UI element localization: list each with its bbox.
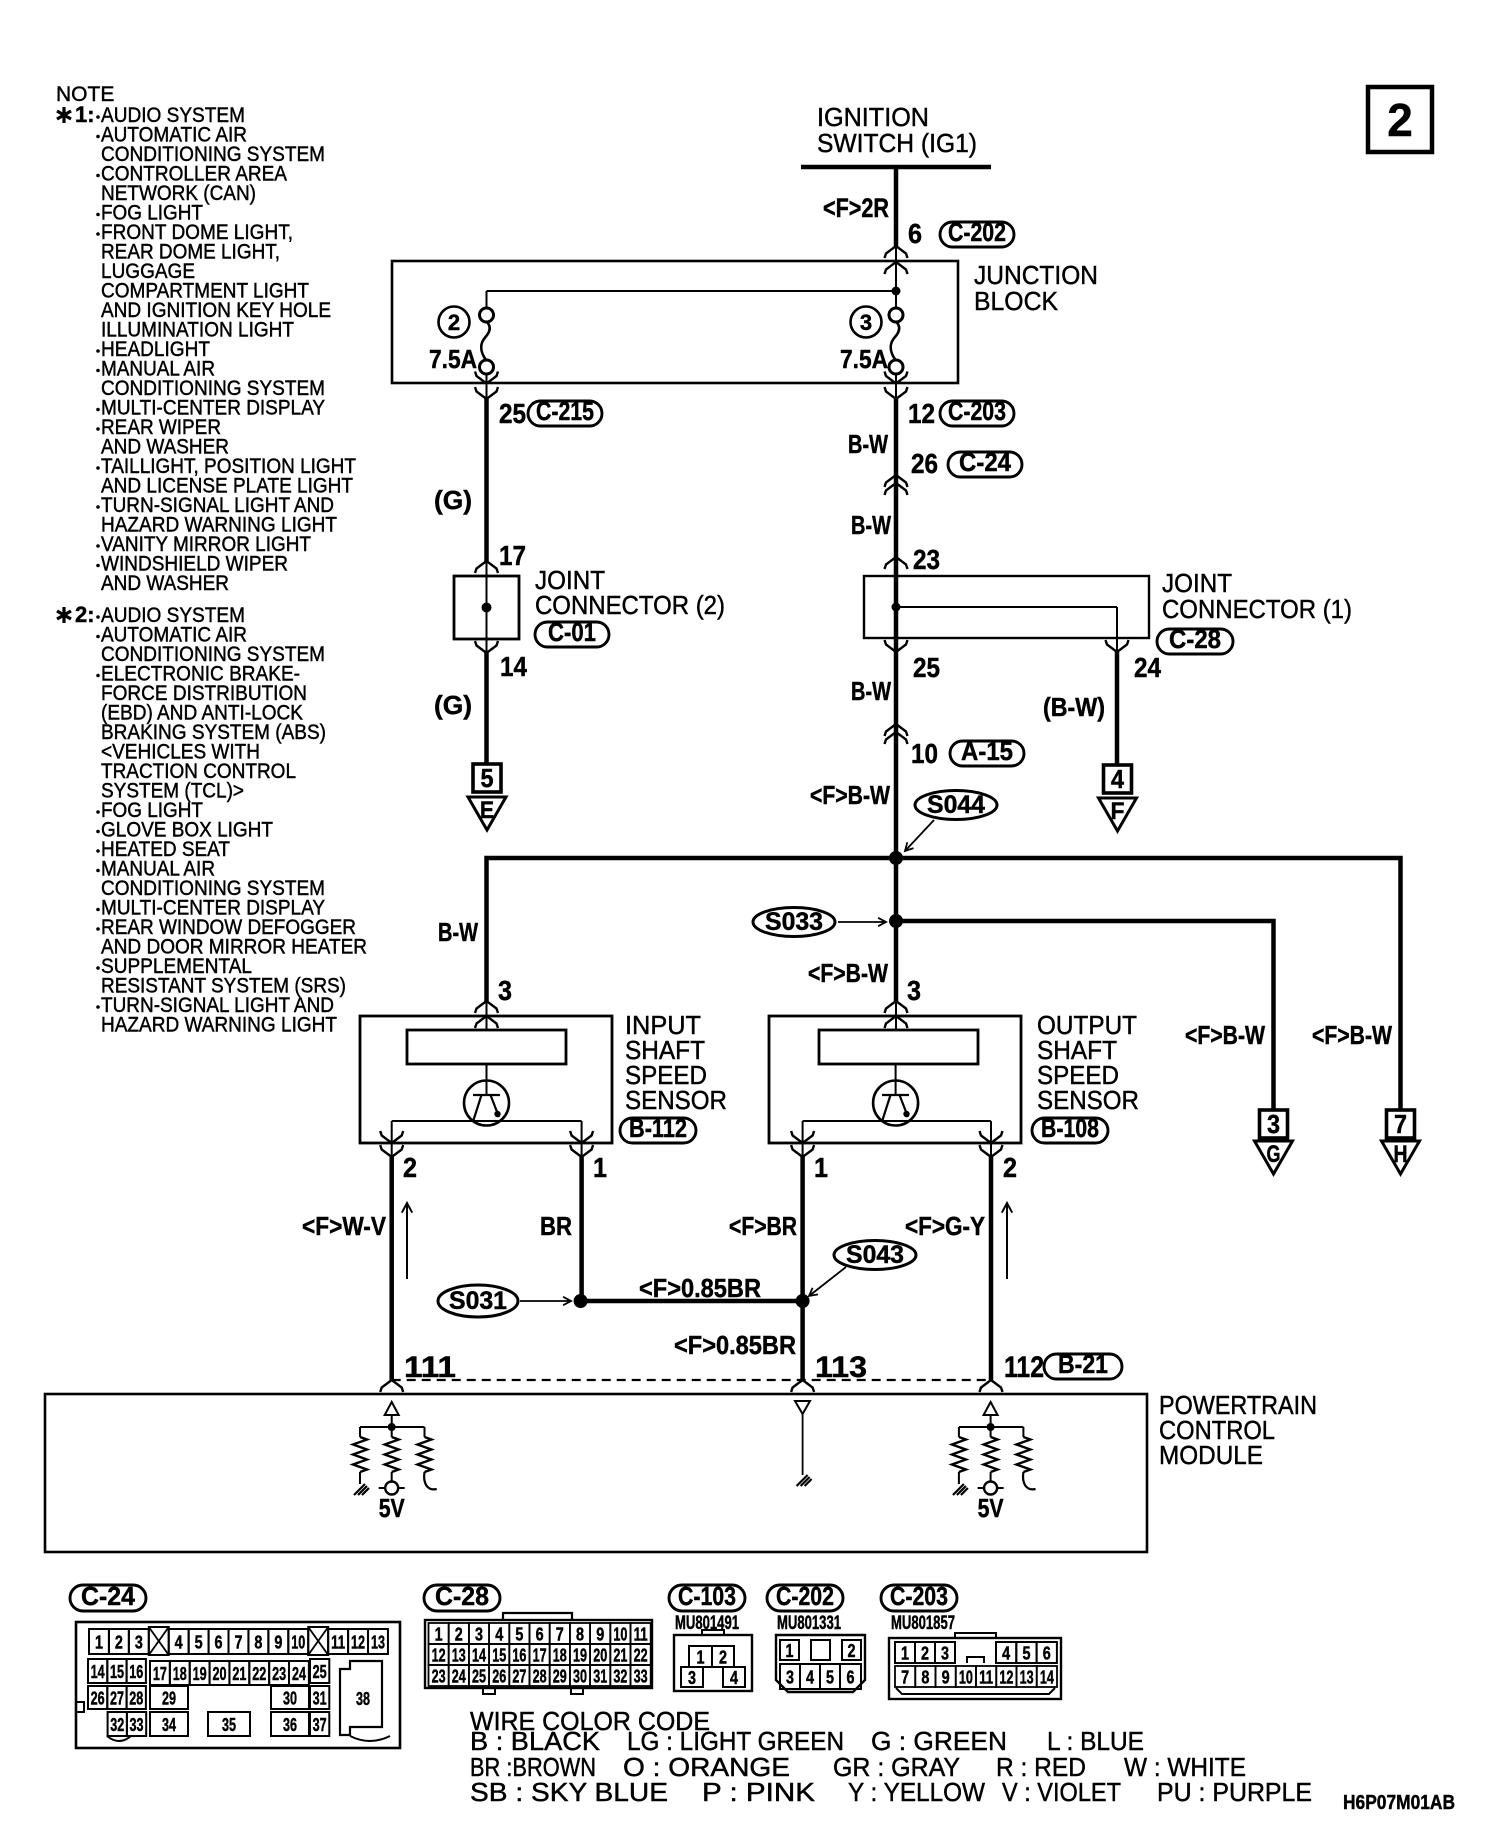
svg-text:32: 32 [613, 1667, 627, 1687]
svg-text:18: 18 [553, 1646, 567, 1666]
svg-text:1:: 1: [75, 102, 95, 127]
svg-text:<F>B-W: <F>B-W [1312, 1020, 1392, 1050]
svg-text:B-W: B-W [851, 676, 891, 706]
svg-text:14: 14 [472, 1646, 486, 1666]
wire <F>G-Y pin2 to PCM 112 [989, 1157, 994, 1380]
svg-text:26: 26 [911, 448, 938, 479]
connector C-103 stadium label [669, 1585, 745, 1611]
svg-text:28: 28 [533, 1667, 547, 1687]
svg-text:5: 5 [515, 1625, 523, 1645]
svg-text:37: 37 [313, 1714, 327, 1735]
chevron into joint connector 1 [885, 557, 908, 569]
svg-text:<F>BR: <F>BR [729, 1211, 797, 1241]
splice S033 [753, 908, 835, 937]
svg-text:24: 24 [452, 1667, 466, 1687]
svg-text:Y : YELLOW: Y : YELLOW [848, 1777, 985, 1807]
svg-text:C-01: C-01 [548, 617, 596, 647]
svg-text:MODULE: MODULE [1159, 1440, 1263, 1470]
svg-text:3: 3 [907, 975, 921, 1006]
svg-text:1: 1 [786, 1641, 794, 1661]
svg-text:20: 20 [213, 1663, 227, 1684]
connector chevrons at junction block top [885, 246, 908, 258]
svg-text:14: 14 [91, 1661, 105, 1682]
svg-text:13: 13 [1020, 1668, 1034, 1688]
splice wire 0.85BR between S031 and S043 [581, 1299, 803, 1304]
svg-text:3: 3 [941, 1644, 949, 1664]
bus wire from S044 node [487, 858, 1401, 1111]
junction block box [392, 261, 958, 383]
svg-text:C-203: C-203 [890, 1581, 948, 1611]
ground triangle F [1099, 798, 1137, 831]
svg-text:9: 9 [942, 1668, 950, 1688]
svg-text:5: 5 [481, 763, 494, 793]
S033 pointer arrow [838, 918, 886, 926]
direction arrow up left [402, 1203, 412, 1279]
connector C-215 stadium [528, 401, 602, 426]
svg-text:25: 25 [913, 652, 940, 683]
svg-text:<F>B-W: <F>B-W [808, 958, 888, 988]
svg-text:1: 1 [814, 1152, 828, 1183]
svg-text:3: 3 [475, 1625, 483, 1645]
C-24 pass-through chevrons [885, 475, 908, 487]
junction block exit chevrons pin 12 [895, 383, 897, 399]
terminal box 3 [1260, 1110, 1288, 1138]
svg-text:4: 4 [1002, 1644, 1010, 1664]
svg-text:2: 2 [1387, 94, 1413, 146]
wire BR pin1 to splice S031 [579, 1157, 584, 1301]
svg-text:11: 11 [979, 1668, 993, 1688]
C-103 housing [674, 1635, 752, 1691]
svg-text:8: 8 [576, 1625, 584, 1645]
connector C-28 stadium label [424, 1585, 500, 1611]
svg-text:5: 5 [1022, 1644, 1030, 1664]
svg-text:21: 21 [232, 1663, 246, 1684]
svg-text:6: 6 [1043, 1644, 1051, 1664]
svg-text:112: 112 [1004, 1351, 1044, 1384]
chevron out of joint connector 2, pin 14 [486, 639, 488, 653]
output sensor pin 1 exit chevrons [802, 1143, 804, 1157]
svg-text:13: 13 [452, 1646, 466, 1666]
svg-text:B-W: B-W [438, 917, 478, 947]
svg-text:6: 6 [215, 1632, 223, 1653]
svg-text:27: 27 [512, 1667, 526, 1687]
svg-text:<F>G-Y: <F>G-Y [905, 1211, 985, 1241]
svg-text:SENSOR: SENSOR [625, 1085, 727, 1115]
svg-text:G: G [1267, 1141, 1281, 1168]
S044 pointer arrow [905, 820, 934, 851]
svg-text:27: 27 [110, 1688, 124, 1709]
connector C-24 stadium label [70, 1585, 146, 1611]
svg-text:B-W: B-W [848, 429, 888, 459]
svg-text:E: E [480, 797, 494, 824]
svg-text:9: 9 [596, 1625, 604, 1645]
page number box 2 [1368, 87, 1432, 152]
svg-text:BR: BR [540, 1211, 572, 1241]
svg-text:2: 2 [448, 310, 460, 335]
svg-text:17: 17 [153, 1663, 167, 1684]
svg-text:1: 1 [593, 1152, 607, 1183]
svg-text:<F>W-V: <F>W-V [302, 1211, 387, 1241]
svg-text:19: 19 [573, 1646, 587, 1666]
C-28 housing [425, 1620, 652, 1688]
svg-text:13: 13 [371, 1632, 385, 1653]
input sensor bottom rail [392, 1120, 582, 1122]
svg-text:7.5A: 7.5A [840, 344, 888, 374]
connector C-24 housing [76, 1622, 400, 1748]
svg-text:24: 24 [292, 1663, 306, 1684]
svg-text:16: 16 [129, 1661, 143, 1682]
svg-text:1: 1 [901, 1644, 909, 1664]
svg-text:1: 1 [435, 1625, 443, 1645]
C-28 pin grid [429, 1623, 449, 1644]
svg-text:18: 18 [173, 1663, 187, 1684]
node S033 junction dot [889, 914, 903, 928]
svg-text:20: 20 [593, 1646, 607, 1666]
svg-text:C-202: C-202 [776, 1581, 834, 1611]
C-103 pins [689, 1646, 712, 1667]
C-203 pins [895, 1642, 915, 1663]
svg-text:H6P07M01AB: H6P07M01AB [1343, 1792, 1455, 1814]
input sensor inner element [407, 1030, 566, 1064]
connector C-203 stadium [940, 401, 1014, 426]
wire (G) to terminal 5 [484, 653, 489, 765]
svg-text:10: 10 [291, 1632, 305, 1653]
svg-text:10: 10 [959, 1668, 973, 1688]
ground triangle E [468, 797, 506, 830]
svg-text:C-24: C-24 [959, 447, 1011, 477]
ground triangle G [1255, 1141, 1293, 1174]
svg-text:6: 6 [536, 1625, 544, 1645]
svg-text:S043: S043 [846, 1241, 904, 1269]
svg-text:BLOCK: BLOCK [974, 286, 1059, 316]
svg-text:12: 12 [432, 1646, 446, 1666]
fuse 3 output lead [895, 374, 897, 383]
svg-text:7: 7 [1394, 1109, 1407, 1139]
svg-text:C-28: C-28 [435, 1581, 489, 1611]
svg-text:1: 1 [95, 1632, 103, 1653]
svg-text:25: 25 [499, 398, 526, 429]
connector C-202 stadium [940, 222, 1014, 247]
svg-text:4: 4 [730, 1668, 738, 1688]
svg-text:34: 34 [162, 1714, 176, 1735]
svg-text:29: 29 [553, 1667, 567, 1687]
svg-text:CONNECTOR (1): CONNECTOR (1) [1162, 594, 1352, 624]
terminal box 5 [473, 764, 501, 792]
output sensor pin 3 chevrons [885, 1001, 908, 1013]
C-24 pin grid [89, 1629, 109, 1654]
svg-text:2: 2 [848, 1641, 856, 1661]
svg-text:B-112: B-112 [629, 1113, 687, 1143]
note *1 marker [57, 107, 71, 123]
svg-text:P : PINK: P : PINK [702, 1777, 816, 1807]
svg-text:C-103: C-103 [678, 1581, 736, 1611]
svg-text:22: 22 [634, 1646, 648, 1666]
chevron 113 at PCM [791, 1380, 814, 1392]
connector C-28 stadium [1157, 629, 1233, 654]
svg-text:5V: 5V [379, 1493, 406, 1523]
svg-text:2: 2 [115, 1632, 123, 1653]
svg-text:<F>0.85BR: <F>0.85BR [674, 1330, 796, 1360]
svg-text:10: 10 [911, 738, 938, 769]
svg-text:CONNECTOR (2): CONNECTOR (2) [535, 590, 725, 620]
C-24 housing tabs [76, 1702, 84, 1712]
svg-text:33: 33 [130, 1714, 144, 1735]
svg-text:F: F [1111, 798, 1125, 825]
svg-text:S033: S033 [765, 908, 823, 936]
input shaft speed sensor box B-112 [360, 1016, 612, 1143]
ground triangle H [1382, 1141, 1420, 1174]
fuse 2 output lead [486, 374, 488, 383]
chevron out of joint connector 1 pin 25 [895, 638, 897, 652]
svg-text:15: 15 [110, 1661, 124, 1682]
svg-text:HAZARD WARNING LIGHT: HAZARD WARNING LIGHT [101, 1014, 337, 1037]
svg-text:17: 17 [533, 1646, 547, 1666]
note *2 marker [57, 607, 71, 623]
connector A-15 stadium [950, 741, 1024, 766]
input sensor pin 1 exit chevrons [581, 1143, 583, 1157]
fuse 3 circle [851, 307, 882, 338]
svg-text:12: 12 [908, 398, 935, 429]
chevron 111 at PCM [380, 1380, 403, 1392]
svg-text:30: 30 [573, 1667, 587, 1687]
input sensor pickup circle [464, 1081, 509, 1126]
ignition switch bar [801, 165, 991, 170]
svg-text:21: 21 [613, 1646, 627, 1666]
svg-text:36: 36 [283, 1714, 297, 1735]
svg-text:2: 2 [1003, 1152, 1017, 1183]
junction block internal wire and node [487, 290, 897, 292]
svg-text:C-215: C-215 [536, 396, 594, 426]
svg-text:11: 11 [331, 1632, 345, 1653]
svg-text:H: H [1394, 1141, 1408, 1168]
svg-text:2:: 2: [75, 602, 95, 627]
connector C-01 stadium [535, 622, 609, 647]
svg-text:SB : SKY BLUE: SB : SKY BLUE [470, 1777, 668, 1807]
svg-text:5: 5 [195, 1632, 203, 1653]
splice S044 [915, 791, 997, 820]
svg-text:7: 7 [901, 1668, 909, 1688]
svg-text:3: 3 [135, 1632, 143, 1653]
svg-text:MU801331: MU801331 [777, 1613, 841, 1634]
svg-text:C-203: C-203 [948, 396, 1006, 426]
connector B-112 stadium [620, 1118, 696, 1143]
svg-text:14: 14 [500, 651, 527, 682]
svg-text:B-21: B-21 [1058, 1349, 1108, 1379]
svg-text:28: 28 [129, 1688, 143, 1709]
connector B-108 stadium [1032, 1118, 1108, 1143]
wire <F>W-V pin2 to PCM 111 [389, 1157, 394, 1380]
svg-text:31: 31 [313, 1688, 327, 1709]
svg-text:2: 2 [455, 1625, 463, 1645]
svg-text:6: 6 [847, 1668, 855, 1688]
svg-text:16: 16 [512, 1646, 526, 1666]
C-202 housing [776, 1635, 865, 1692]
fuse 2 circle [439, 307, 470, 338]
svg-text:V : VIOLET: V : VIOLET [1002, 1777, 1121, 1807]
fuse 2 element [480, 308, 494, 322]
note list 1 [96, 115, 100, 119]
input sensor pin 3 chevrons [475, 1001, 498, 1013]
svg-text:35: 35 [222, 1714, 236, 1735]
svg-text:SWITCH (IG1): SWITCH (IG1) [817, 128, 977, 158]
powertrain control module box [45, 1394, 1147, 1552]
svg-text:7.5A: 7.5A [429, 344, 477, 374]
direction arrow up right [1002, 1203, 1012, 1279]
svg-text:3: 3 [498, 975, 512, 1006]
wire (B-W) branch to terminal 4 [1115, 652, 1120, 766]
S031 pointer arrow [520, 1297, 571, 1305]
svg-text:26: 26 [492, 1667, 506, 1687]
PCM input circuit for pin 111 [385, 1402, 399, 1415]
svg-text:2: 2 [921, 1644, 929, 1664]
chevron out of joint connector 1 pin 24 [1116, 638, 1118, 652]
input sensor pin 2 exit chevrons [391, 1143, 393, 1157]
svg-text:38: 38 [356, 1688, 370, 1709]
svg-text:9: 9 [274, 1632, 282, 1653]
svg-text:17: 17 [499, 540, 526, 571]
svg-text:14: 14 [1040, 1668, 1054, 1688]
connector C-202 stadium label [767, 1585, 843, 1611]
output sensor inner element [819, 1030, 978, 1064]
svg-text:23: 23 [913, 544, 940, 575]
svg-text:4: 4 [1111, 764, 1124, 794]
svg-text:4: 4 [175, 1632, 184, 1653]
terminal box 4 [1104, 765, 1132, 793]
wire ignition to junction block, <F>2R [894, 167, 899, 246]
output shaft speed sensor box B-108 [769, 1016, 1021, 1143]
svg-text:MU801857: MU801857 [891, 1613, 955, 1634]
svg-text:22: 22 [252, 1663, 266, 1684]
svg-text:7: 7 [556, 1625, 564, 1645]
wire (G) to joint connector 2 [484, 399, 489, 561]
joint connector 2 box C-01 [454, 576, 519, 639]
svg-text:PU : PURPLE: PU : PURPLE [1157, 1777, 1312, 1807]
wire <F>BR output pin1 through S043 to PCM 113 [800, 1157, 805, 1380]
svg-text:15: 15 [492, 1646, 506, 1666]
svg-text:B-W: B-W [851, 510, 891, 540]
svg-text:12: 12 [351, 1632, 365, 1653]
PCM input circuit for pin 112 [984, 1402, 998, 1415]
wire S044 node to output sensor [894, 858, 899, 1001]
svg-text:SENSOR: SENSOR [1037, 1085, 1139, 1115]
svg-text:<F>B-W: <F>B-W [810, 780, 890, 810]
svg-text:S031: S031 [449, 1287, 507, 1315]
bus wire 2 to terminal 3 [896, 921, 1274, 1111]
svg-text:S044: S044 [927, 791, 985, 819]
svg-text:AND WASHER: AND WASHER [101, 572, 229, 595]
terminal box 7 [1387, 1110, 1415, 1138]
svg-text:8: 8 [254, 1632, 262, 1653]
joint connector 1 internal wire [895, 576, 897, 638]
fuse 3 element [889, 308, 903, 322]
svg-text:(G): (G) [434, 485, 472, 515]
svg-text:3: 3 [860, 310, 872, 335]
svg-text:29: 29 [162, 1688, 176, 1709]
svg-text:10: 10 [613, 1625, 627, 1645]
wire B-W junction block to C-24 crossing [894, 399, 899, 858]
A-15 pass-through chevrons [885, 724, 908, 736]
note list 2 [96, 615, 100, 619]
svg-text:2: 2 [403, 1152, 417, 1183]
svg-text:3: 3 [786, 1668, 794, 1688]
svg-text:8: 8 [921, 1668, 929, 1688]
S043 pointer arrow [809, 1267, 846, 1296]
svg-text:C-28: C-28 [1169, 624, 1221, 654]
svg-text:25: 25 [313, 1661, 327, 1682]
svg-text:24: 24 [1134, 652, 1161, 683]
PCM ground for pin 113 [795, 1401, 810, 1414]
output sensor pickup circle [873, 1081, 918, 1126]
svg-text:32: 32 [110, 1714, 124, 1735]
svg-text:25: 25 [472, 1667, 486, 1687]
svg-text:5: 5 [826, 1668, 834, 1688]
svg-text:<F>0.85BR: <F>0.85BR [639, 1273, 761, 1303]
svg-text:2: 2 [719, 1648, 727, 1668]
svg-text:3: 3 [1267, 1109, 1280, 1139]
svg-text:5V: 5V [978, 1493, 1005, 1523]
junction block exit chevrons pin 25 [486, 383, 488, 399]
svg-text:4: 4 [495, 1625, 503, 1645]
connector C-24 stadium [948, 452, 1022, 477]
connector B-21 dashed line [392, 1379, 989, 1381]
output sensor pin 2 exit chevrons [990, 1143, 992, 1157]
splice S043 [834, 1241, 916, 1270]
svg-text:(G): (G) [434, 690, 472, 720]
svg-text:7: 7 [234, 1632, 242, 1653]
connector B-21 stadium [1044, 1354, 1122, 1379]
splice S031 [438, 1285, 518, 1317]
C-203 housing [889, 1638, 1061, 1699]
svg-text:<F>2R: <F>2R [823, 193, 889, 223]
svg-text:C-24: C-24 [81, 1581, 136, 1611]
svg-text:4: 4 [806, 1668, 814, 1688]
svg-text:19: 19 [193, 1663, 207, 1684]
svg-text:23: 23 [272, 1663, 286, 1684]
svg-text:3: 3 [688, 1668, 696, 1688]
svg-text:12: 12 [999, 1668, 1013, 1688]
svg-text:33: 33 [634, 1667, 648, 1687]
svg-text:(B-W): (B-W) [1043, 692, 1105, 722]
svg-text:31: 31 [593, 1667, 607, 1687]
svg-text:23: 23 [432, 1667, 446, 1687]
chevron into joint connector 2 [475, 561, 498, 573]
C-202 pins [780, 1640, 799, 1660]
svg-text:<F>B-W: <F>B-W [1185, 1020, 1265, 1050]
svg-text:A-15: A-15 [961, 736, 1013, 766]
connector C-203 stadium label [881, 1585, 957, 1611]
svg-text:6: 6 [908, 218, 922, 249]
C-24 pin 38 block [340, 1661, 382, 1735]
svg-text:C-202: C-202 [948, 217, 1006, 247]
output sensor bottom rail [803, 1120, 991, 1122]
svg-text:26: 26 [91, 1688, 105, 1709]
svg-text:30: 30 [283, 1688, 297, 1709]
svg-text:1: 1 [697, 1648, 705, 1668]
joint connector 1 box C-28 [864, 576, 1149, 638]
node S044 junction dot [889, 851, 903, 865]
chevron 112 at PCM [980, 1380, 1003, 1392]
svg-text:11: 11 [634, 1625, 648, 1645]
svg-text:B-108: B-108 [1041, 1113, 1099, 1143]
